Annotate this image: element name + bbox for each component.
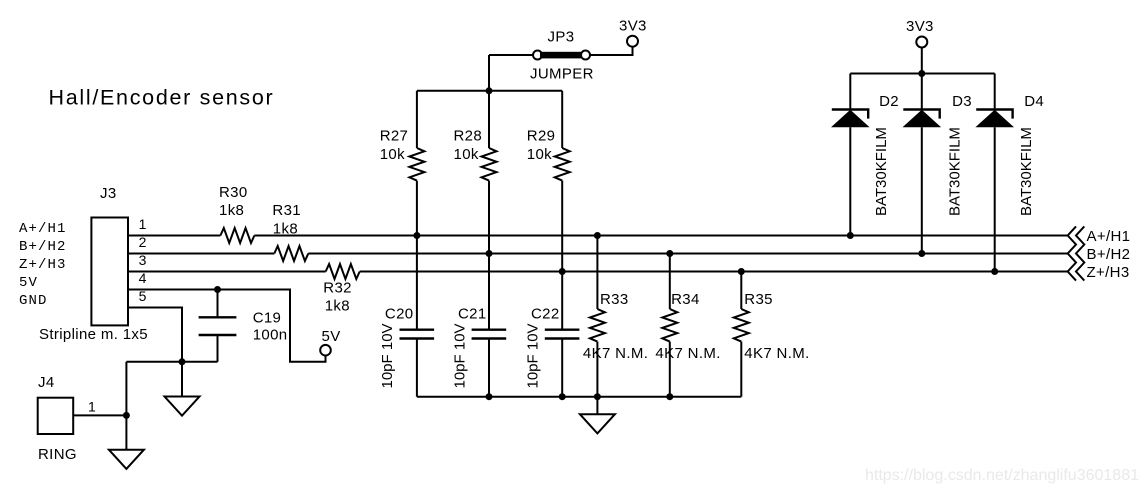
svg-text:B+/H2: B+/H2: [1087, 246, 1131, 263]
wire net A+/H1 right segment: [254, 235, 1067, 237]
svg-text:Hall/Encoder sensor: Hall/Encoder sensor: [49, 86, 275, 110]
capacitor C21: [472, 254, 507, 397]
junction D3 wire2: [918, 250, 925, 257]
capacitor C20: [400, 236, 435, 397]
resistor R28: [482, 91, 497, 254]
junction J4 node: [123, 412, 130, 419]
svg-text:JP3: JP3: [548, 28, 575, 45]
svg-text:R30: R30: [219, 184, 248, 201]
svg-text:5V: 5V: [19, 275, 38, 291]
wire 3V3 stem: [921, 48, 923, 74]
JP3 right pad: [581, 51, 590, 60]
svg-text:D2: D2: [879, 93, 899, 110]
terminal 3V3 right circle: [916, 37, 927, 48]
ground symbol under bus: [580, 397, 615, 434]
svg-text:BAT30KFILM: BAT30KFILM: [873, 127, 890, 216]
resistor R31: [274, 246, 308, 261]
capacitor C22: [545, 272, 580, 397]
svg-text:5V: 5V: [322, 328, 341, 345]
svg-text:BAT30KFILM: BAT30KFILM: [947, 127, 964, 216]
svg-text:3V3: 3V3: [906, 18, 934, 35]
junction bus C21: [486, 393, 493, 400]
junction R33 wire1: [594, 232, 601, 239]
junction wire4 C19 tap: [214, 286, 221, 293]
wire pullup top bus: [417, 90, 562, 92]
svg-text:C22: C22: [531, 306, 560, 323]
junction R34 wire2: [666, 250, 673, 257]
svg-text:D4: D4: [1024, 93, 1044, 110]
svg-text:10pF 10V: 10pF 10V: [379, 323, 396, 388]
svg-text:GND: GND: [19, 293, 48, 309]
diode D3: [903, 74, 942, 254]
svg-text:1: 1: [139, 216, 147, 232]
svg-text:R29: R29: [527, 128, 556, 145]
wire JP3 left: [489, 54, 534, 56]
junction R27 wire1: [413, 232, 420, 239]
net flag chevrons outer: [1076, 226, 1084, 280]
svg-text:C20: C20: [385, 306, 414, 323]
svg-text:J3: J3: [100, 185, 117, 202]
svg-text:1k8: 1k8: [273, 221, 298, 238]
svg-text:4K7 N.M.: 4K7 N.M.: [583, 345, 648, 362]
svg-text:R31: R31: [272, 202, 301, 219]
junction R28 wire2: [486, 250, 493, 257]
junction bus R34: [666, 393, 673, 400]
junction R29 wire3: [559, 268, 566, 275]
svg-text:R27: R27: [380, 128, 409, 145]
junction D4 wire3: [991, 268, 998, 275]
resistor R33: [590, 236, 605, 397]
svg-text:1k8: 1k8: [325, 298, 350, 315]
wire GND horizontal: [126, 361, 217, 363]
svg-text:10k: 10k: [527, 146, 552, 163]
svg-text:R32: R32: [323, 280, 352, 297]
wire net B+/H2 right segment: [308, 253, 1067, 255]
wire J4 node up: [125, 362, 127, 416]
connector J4: [38, 398, 73, 434]
svg-text:Stripline m. 1x5: Stripline m. 1x5: [39, 326, 148, 343]
wire net A+/H1 left segment: [128, 235, 220, 237]
resistor R35: [734, 272, 749, 397]
wire net Z+/H3 left segment: [128, 271, 326, 273]
JP3 bar: [540, 52, 582, 59]
svg-text:R33: R33: [600, 291, 629, 308]
resistor R29: [555, 91, 570, 272]
resistor R27: [409, 91, 424, 236]
wire net GND from pin 5: [128, 308, 182, 362]
wire JP3 right to 3V3: [590, 47, 633, 55]
svg-text:1: 1: [88, 398, 96, 414]
svg-text:R35: R35: [744, 291, 773, 308]
svg-text:J4: J4: [38, 374, 55, 391]
junction GND node: [179, 358, 186, 365]
wire bottom gnd bus: [417, 396, 741, 398]
capacitor C19: [199, 291, 237, 362]
svg-text:C21: C21: [458, 306, 487, 323]
ground symbol under J4 node: [109, 415, 144, 469]
svg-text:C19: C19: [253, 310, 282, 327]
svg-text:B+/H2: B+/H2: [19, 239, 67, 255]
svg-text:10k: 10k: [380, 146, 405, 163]
connector J3: [91, 218, 128, 326]
svg-text:10pF 10V: 10pF 10V: [525, 323, 542, 388]
JP3 left pad: [533, 51, 542, 60]
jumper JP3: [489, 28, 633, 82]
wire net B+/H2 left segment: [128, 253, 274, 255]
diode D2: [831, 74, 870, 236]
svg-text:1k8: 1k8: [219, 202, 244, 219]
junction bus C22: [559, 393, 566, 400]
terminal 5V circle: [320, 345, 331, 356]
resistor R30: [220, 228, 254, 243]
svg-text:Z+/H3: Z+/H3: [1087, 264, 1130, 281]
diode D4: [975, 74, 1014, 272]
svg-text:JUMPER: JUMPER: [530, 66, 594, 83]
wire diode top bus: [850, 73, 994, 75]
svg-text:BAT30KFILM: BAT30KFILM: [1018, 127, 1035, 216]
wire J4 pin 1: [73, 414, 126, 416]
svg-text:3V3: 3V3: [619, 18, 647, 35]
wire JP3 down to bus: [488, 55, 490, 91]
junction R35 wire3: [738, 268, 745, 275]
junction D2 wire1: [847, 232, 854, 239]
svg-text:RING: RING: [38, 446, 77, 463]
junction bus R33: [594, 393, 601, 400]
ground symbol under GND node: [165, 362, 200, 416]
svg-text:10k: 10k: [454, 146, 479, 163]
resistor R32: [326, 264, 360, 279]
svg-text:https://blog.csdn.net/zhanglif: https://blog.csdn.net/zhanglifu3601881: [865, 467, 1139, 484]
svg-text:Z+/H3: Z+/H3: [19, 257, 67, 273]
junction top bus 3V3: [918, 70, 925, 77]
svg-text:10pF 10V: 10pF 10V: [451, 323, 468, 388]
resistor R34: [662, 254, 677, 397]
svg-text:4K7 N.M.: 4K7 N.M.: [744, 345, 809, 362]
svg-text:A+/H1: A+/H1: [19, 221, 67, 237]
wire net Z+/H3 right segment: [360, 271, 1068, 273]
terminal 3V3 left circle: [627, 36, 638, 47]
svg-text:4K7 N.M.: 4K7 N.M.: [655, 345, 720, 362]
svg-text:D3: D3: [952, 93, 972, 110]
svg-text:100n: 100n: [253, 326, 288, 343]
junction top bus JP3: [486, 87, 493, 94]
svg-text:R34: R34: [671, 291, 700, 308]
svg-text:A+/H1: A+/H1: [1087, 228, 1131, 245]
net flag chevrons inner: [1068, 226, 1076, 280]
wire net 5V from pin 4: [128, 290, 326, 362]
svg-text:R28: R28: [454, 128, 483, 145]
